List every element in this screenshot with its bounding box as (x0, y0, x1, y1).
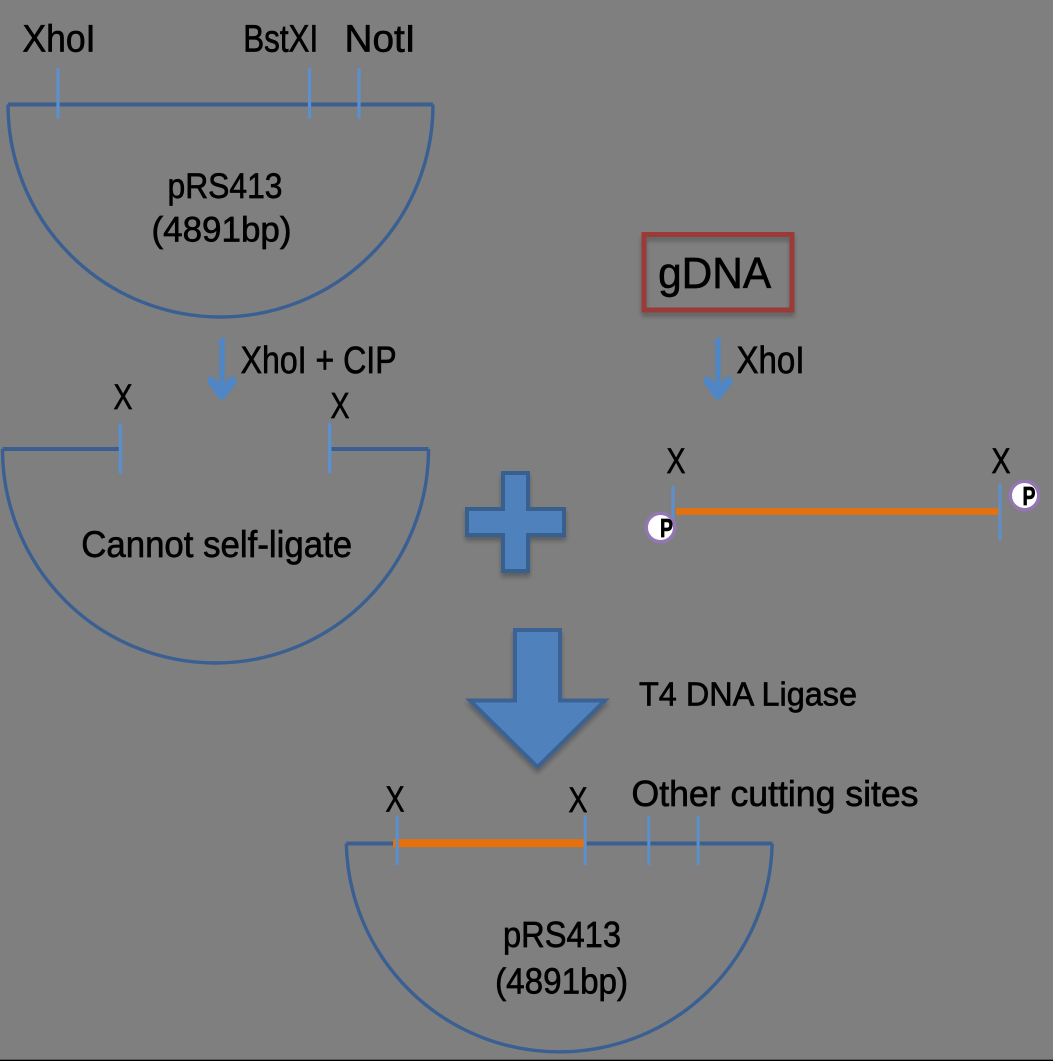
svg-text:X: X (114, 378, 133, 417)
svg-text:XhoI: XhoI (23, 19, 96, 61)
label X right bowl 2 (331, 385, 350, 426)
label T4 DNA Ligase (639, 676, 857, 713)
svg-text:Cannot self-ligate: Cannot self-ligate (81, 524, 352, 565)
svg-text:XhoI + CIP: XhoI + CIP (241, 340, 397, 382)
svg-text:P: P (1023, 481, 1036, 511)
phosphate P left (646, 513, 675, 543)
label BstXI (243, 19, 318, 61)
svg-text:gDNA: gDNA (658, 249, 772, 298)
svg-text:X: X (331, 385, 350, 426)
svg-text:NotI: NotI (345, 19, 416, 61)
svg-text:X: X (667, 442, 686, 481)
tick X right on bowl 2 (328, 423, 332, 473)
label XhoI (23, 19, 96, 61)
tick NotI site on bowl 1 (357, 68, 360, 119)
svg-text:BstXI: BstXI (243, 19, 318, 61)
svg-text:(4891bp): (4891bp) (495, 961, 628, 1002)
label X right bowl 3 (569, 781, 588, 820)
label X left bowl 2 (114, 378, 133, 417)
svg-text:X: X (386, 779, 405, 820)
bowl 3 ligated plasmid top line (346, 841, 772, 845)
tick XhoI site on bowl 1 (56, 68, 59, 119)
svg-text:T4 DNA Ligase: T4 DNA Ligase (639, 676, 857, 713)
label NotI (345, 19, 416, 61)
bowl 3 arc (346, 844, 772, 1052)
tick other site 2 bowl 3 (697, 816, 700, 865)
label X right insert (992, 442, 1011, 481)
svg-text:XhoI: XhoI (737, 340, 805, 382)
svg-text:X: X (569, 781, 588, 820)
label gDNA (658, 249, 772, 298)
insert orange segment on bowl 3 (393, 839, 584, 847)
bowl 2 arc (3, 449, 429, 663)
arrow XhoI right (708, 338, 728, 395)
svg-text:pRS413: pRS413 (503, 914, 621, 955)
bowl 2 cut plasmid left top line (3, 447, 120, 451)
gDNA insert fragment orange line (676, 508, 1000, 515)
bowl 2 cut plasmid right top line (329, 447, 429, 451)
plasmid pRS413 bowl 1 arc (8, 105, 433, 318)
big arrow T4 DNA ligase (470, 630, 605, 767)
phosphate P right (1010, 481, 1039, 511)
tick BstXI site on bowl 1 (308, 68, 311, 119)
gDNA box (644, 235, 792, 311)
tick other site 1 bowl 3 (647, 816, 650, 865)
tick X left bowl 3 (396, 816, 399, 865)
label X left insert (667, 442, 686, 481)
text Cannot self-ligate (81, 524, 352, 565)
svg-text:X: X (992, 442, 1011, 481)
svg-text:(4891bp): (4891bp) (152, 211, 292, 250)
label X left bowl 3 (386, 779, 405, 820)
tick X left insert (672, 486, 675, 537)
label Other cutting sites (632, 773, 919, 814)
tick X right insert (999, 484, 1002, 540)
label XhoI + CIP (241, 340, 397, 382)
svg-text:Other cutting sites: Other cutting sites (632, 773, 919, 814)
bottom black edge strip (0, 1060, 1053, 1061)
tick X right bowl 3 (584, 816, 587, 865)
text pRS413 bowl 1 (152, 167, 292, 250)
svg-text:P: P (660, 513, 673, 543)
text pRS413 bowl 3 (495, 914, 628, 1002)
svg-text:pRS413: pRS413 (168, 167, 283, 206)
arrow XhoI+CIP (212, 338, 232, 395)
label XhoI right (737, 340, 805, 382)
tick X left on bowl 2 (119, 423, 123, 473)
plasmid pRS413 bowl 1 top line (8, 102, 433, 106)
plus sign (467, 473, 564, 571)
